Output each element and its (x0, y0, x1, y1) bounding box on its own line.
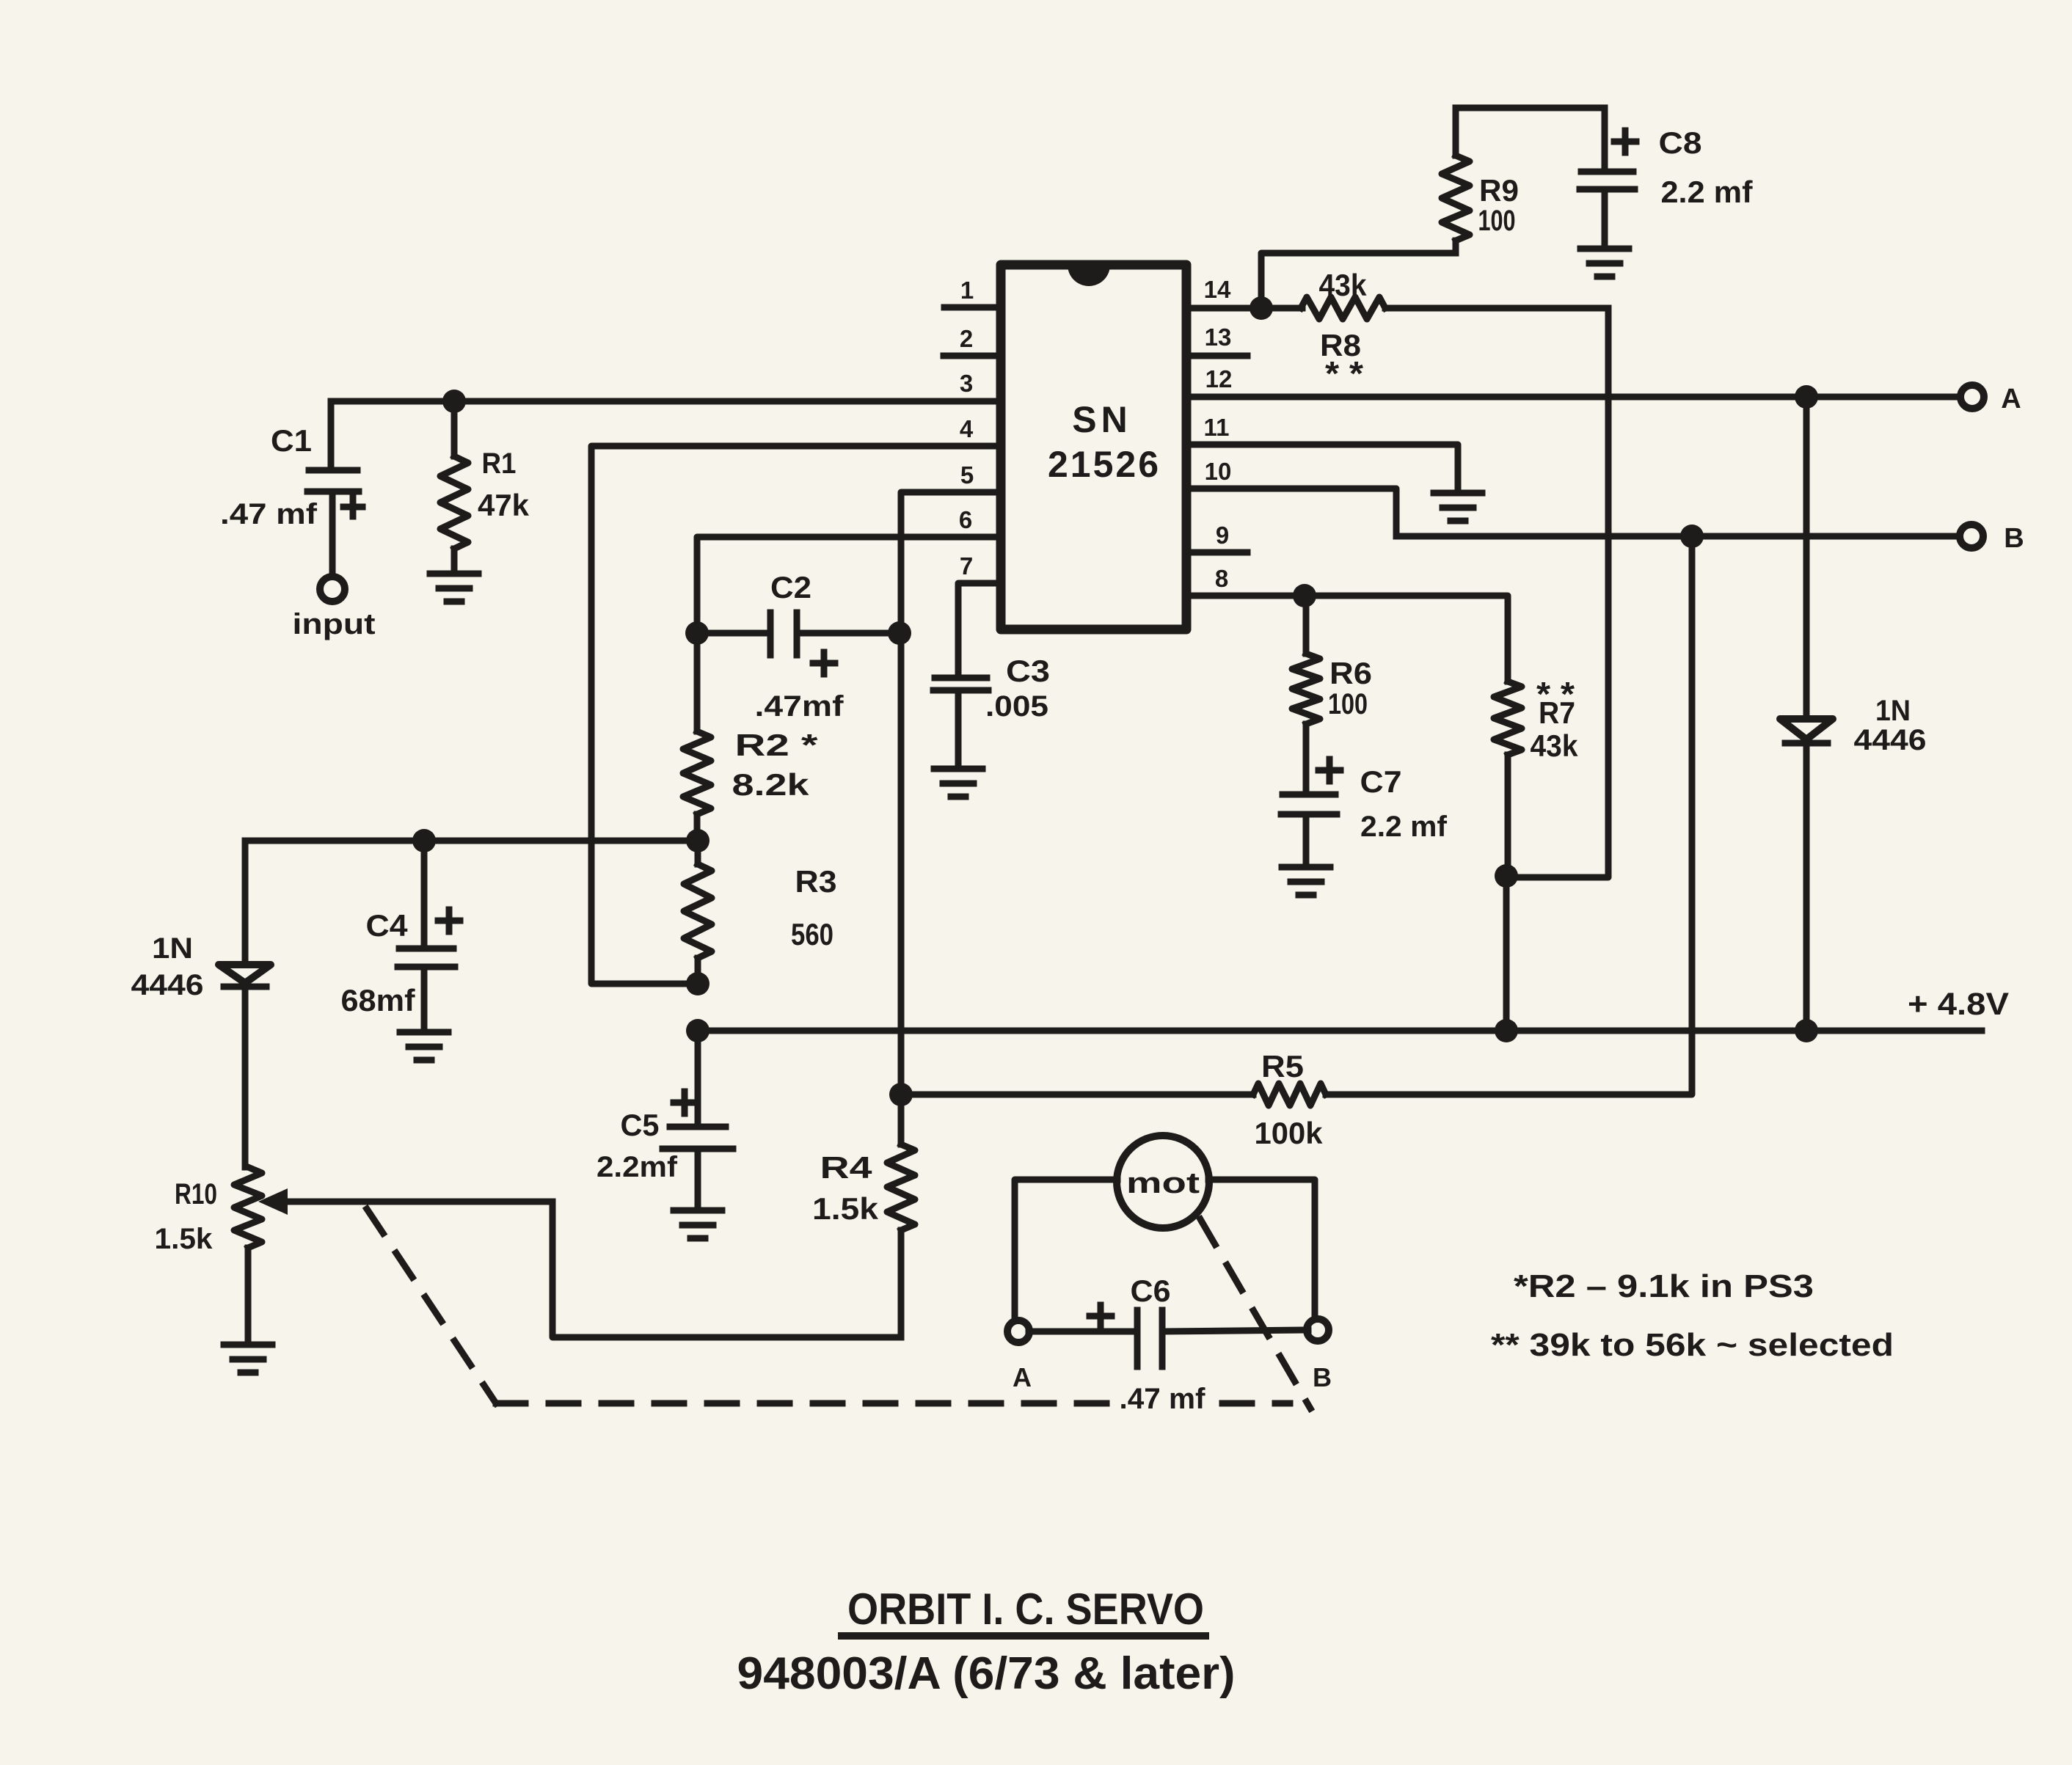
wire R8 right to R7 bottom (1506, 308, 1608, 877)
title ORBIT I.C. SERVO (842, 1585, 1205, 1636)
svg-text:100k: 100k (1255, 1116, 1324, 1150)
terminal B (1960, 525, 1983, 548)
C1 label (271, 423, 312, 458)
ground (pin 11) (1434, 493, 1482, 521)
C6 label (1131, 1273, 1171, 1308)
capacitor C3 (933, 678, 988, 767)
svg-text:C6: C6 (1131, 1273, 1171, 1308)
R4 label (820, 1150, 873, 1185)
svg-text:1N: 1N (152, 932, 193, 965)
R3 label (795, 864, 837, 899)
motor loop wire right (1208, 1180, 1315, 1318)
resistor R6 (1292, 596, 1320, 792)
pin 1 (944, 277, 1001, 307)
C5 value 2.2mf (597, 1151, 678, 1183)
C5 label (621, 1108, 660, 1142)
junction R7 bottom (1495, 864, 1518, 888)
C2 label (770, 570, 811, 604)
pin 2 (944, 325, 1001, 356)
wire wiper to R4 bottom (552, 1202, 901, 1337)
svg-text:*R2 – 9.1k in PS3: *R2 – 9.1k in PS3 (1514, 1268, 1814, 1304)
junction A line / diode (1795, 385, 1818, 409)
note 39k to 56k (1491, 1327, 1894, 1363)
dashed linkage from R10 wiper (367, 1209, 496, 1403)
svg-text:R10: R10 (175, 1178, 217, 1210)
ground (R10) (224, 1345, 272, 1373)
svg-text:8.2k: 8.2k (732, 767, 810, 802)
svg-text:100: 100 (1328, 688, 1368, 720)
diode 1N4446 (right) (1780, 397, 1833, 1031)
resistor R9 (1442, 108, 1470, 253)
svg-text:mot: mot (1126, 1167, 1200, 1199)
pin 5 wire (901, 461, 1001, 1095)
svg-text:11: 11 (1204, 414, 1230, 441)
R7 note stars (1536, 675, 1575, 713)
input label (293, 608, 376, 640)
junction pin-14 / R9 branch (1250, 296, 1273, 320)
ground (C5) (674, 1210, 722, 1238)
op-amp IC U1 SN 21526 body (1001, 265, 1186, 629)
svg-text:2.2 mf: 2.2 mf (1661, 175, 1754, 209)
svg-text:21526: 21526 (1048, 444, 1161, 485)
R1 label (482, 447, 517, 480)
svg-text:12: 12 (1205, 365, 1233, 392)
svg-text:560: 560 (791, 917, 833, 951)
svg-text:* *: * * (1325, 354, 1363, 392)
svg-text:C8: C8 (1659, 125, 1702, 160)
wire R9 bottom link (1261, 253, 1456, 308)
C4 label (366, 908, 409, 943)
svg-text:3: 3 (960, 370, 973, 397)
wire node to C4 and diode (y1146) (245, 838, 698, 844)
junction rail / R2R3 branch (686, 1019, 709, 1042)
svg-text:R1: R1 (482, 447, 517, 480)
ground (R1) (430, 574, 478, 602)
junction B line / R5 branch (1680, 525, 1704, 548)
pin 12 number (1205, 365, 1233, 392)
terminal B (motor) (1307, 1319, 1329, 1341)
C4 value 68mf (341, 983, 416, 1017)
svg-text:1: 1 (960, 277, 974, 304)
C7 label (1360, 764, 1402, 799)
pin 6 wire (697, 506, 1001, 633)
svg-text:10: 10 (1205, 458, 1232, 485)
svg-text:R7: R7 (1539, 695, 1575, 730)
R8 note stars (1325, 354, 1363, 392)
wire R9 top to C8 (1456, 105, 1605, 112)
svg-text:4446: 4446 (131, 969, 204, 1001)
terminal A label (2001, 384, 2021, 414)
svg-text:.47 mf: .47 mf (220, 498, 318, 530)
dashed linkage horizontal (496, 1400, 1290, 1407)
wire output A line (pin 12) (1186, 394, 1960, 401)
R10 label (175, 1178, 217, 1210)
capacitor C4 (398, 841, 460, 1031)
svg-text:948003/A (6/73 & later): 948003/A (6/73 & later) (737, 1648, 1236, 1699)
junction C2 right (888, 621, 911, 645)
R8 value 43k (1319, 268, 1368, 302)
R2 label (735, 728, 819, 762)
svg-text:** 39k to 56k ~ selected: ** 39k to 56k ~ selected (1491, 1327, 1894, 1363)
C8 label (1659, 125, 1702, 160)
svg-text:68mf: 68mf (341, 983, 416, 1017)
svg-text:ORBIT I. C. SERVO: ORBIT I. C. SERVO (847, 1585, 1204, 1634)
R9 value 100 (1478, 205, 1516, 237)
R6 label (1329, 656, 1372, 690)
svg-text:100: 100 (1478, 205, 1516, 237)
junction R3 bottom / pin 4 (686, 972, 709, 995)
svg-text:A: A (1013, 1362, 1032, 1392)
svg-text:R3: R3 (795, 864, 837, 899)
terminal A motor label (1013, 1362, 1032, 1392)
svg-text:+ 4.8V: + 4.8V (1908, 987, 2009, 1022)
C2 value .47mf (755, 690, 845, 723)
R7 value 43k (1531, 728, 1579, 763)
C1 value .47 mf (220, 498, 318, 530)
svg-text:R4: R4 (820, 1150, 873, 1185)
+4.8V power rail (698, 1028, 1982, 1034)
svg-text:input: input (293, 608, 376, 640)
pin 10 wire (1186, 458, 1396, 536)
terminal A (1960, 385, 1984, 409)
svg-text:5: 5 (960, 461, 974, 489)
right diode label 4446 (1854, 724, 1927, 756)
pin 4 wire (591, 415, 1001, 984)
resistor R5 and wire to B branch (901, 536, 1692, 1106)
svg-text:C2: C2 (770, 570, 811, 604)
resistor R7 (1494, 681, 1522, 876)
title 948003/A (6/73 &amp; later) (737, 1648, 1236, 1699)
capacitor C8 (1580, 108, 1636, 247)
pin 3 number (960, 370, 973, 397)
left diode label 4446 (131, 969, 204, 1001)
svg-text:1.5k: 1.5k (155, 1223, 214, 1255)
svg-text:14: 14 (1204, 276, 1231, 303)
diode 1N4446 (left) (219, 965, 271, 1167)
svg-text:1N: 1N (1875, 695, 1911, 727)
resistor R2 (683, 633, 711, 841)
ground (C4) (400, 1032, 448, 1060)
wire diode branch top (242, 841, 249, 962)
svg-text:8: 8 (1215, 565, 1228, 592)
wire R7 bottom to rail (1503, 876, 1510, 1031)
svg-text:9: 9 (1216, 522, 1229, 549)
svg-text:C4: C4 (366, 908, 409, 943)
svg-text:C1: C1 (271, 423, 312, 458)
pin 11 wire (1186, 414, 1458, 492)
terminal B motor label (1313, 1362, 1332, 1392)
C8 value 2.2 mf (1661, 175, 1754, 209)
R7 label (1539, 695, 1575, 730)
motor loop wire left (1015, 1180, 1117, 1319)
svg-text:4446: 4446 (1854, 724, 1927, 756)
junction C4 tap (412, 829, 436, 852)
input terminal (320, 577, 345, 602)
ground (C3) (934, 769, 982, 797)
pin 9 stub (1186, 522, 1247, 552)
R3 value 560 (791, 917, 833, 951)
junction C2 left (685, 621, 709, 645)
terminal B label (2004, 523, 2024, 554)
svg-text:R6: R6 (1329, 656, 1372, 690)
svg-text:2.2 mf: 2.2 mf (1360, 811, 1448, 843)
junction R5 / pin-5 branch (889, 1083, 913, 1106)
svg-text:43k: 43k (1531, 728, 1579, 763)
C3 value .005 (985, 690, 1048, 723)
svg-text:13: 13 (1205, 324, 1232, 351)
svg-text:.47mf: .47mf (755, 690, 845, 723)
svg-text:R9: R9 (1479, 173, 1519, 208)
R6 value 100 (1328, 688, 1368, 720)
ground (C7) (1282, 867, 1330, 895)
svg-text:B: B (1313, 1362, 1332, 1392)
svg-text:43k: 43k (1319, 268, 1368, 302)
junction pin-8 / R6 (1293, 584, 1316, 607)
pin 14 wire (1186, 276, 1608, 308)
R2 value 8.2k (732, 767, 810, 802)
junction node C1/R1 on pin-3 wire (442, 390, 466, 413)
C7 value 2.2mf (1360, 811, 1448, 843)
svg-text:A: A (2001, 384, 2021, 414)
pin 7 wire (958, 552, 1001, 675)
capacitor C2 (697, 613, 900, 674)
junction R2/R3 node (686, 829, 709, 852)
dashed linkage from motor (1200, 1219, 1310, 1408)
svg-text:C5: C5 (621, 1108, 660, 1142)
wire pin-3 net (C1/R1 to IC pin 3) (331, 398, 1001, 405)
R4 value 1.5k (812, 1191, 879, 1226)
junction diode / +4.8V rail (1795, 1019, 1818, 1042)
junction R7 / +4.8V rail (1495, 1019, 1518, 1042)
svg-text:2: 2 (960, 325, 973, 352)
resistor R8 (1301, 297, 1385, 319)
R5 value 100k (1255, 1116, 1324, 1150)
potentiometer R10 (234, 1167, 552, 1343)
svg-text:6: 6 (959, 506, 972, 533)
resistor R1 (440, 401, 468, 572)
capacitor C6 (1029, 1305, 1308, 1367)
motor M (1117, 1136, 1209, 1228)
svg-text:47k: 47k (478, 488, 530, 522)
pin 13 stub (1186, 324, 1247, 356)
svg-text:1.5k: 1.5k (812, 1191, 879, 1226)
C3 label (1006, 654, 1050, 688)
capacitor C7 (1281, 759, 1340, 866)
svg-text:R5: R5 (1261, 1049, 1304, 1084)
wire output B line (pin 10) (1396, 533, 1960, 540)
left diode label 1N (152, 932, 193, 965)
svg-text:C7: C7 (1360, 764, 1402, 799)
+4.8V label (1908, 987, 2009, 1022)
svg-text:SN: SN (1072, 399, 1131, 440)
R9 label (1479, 173, 1519, 208)
ground (C8) (1580, 249, 1629, 277)
svg-text:C3: C3 (1006, 654, 1050, 688)
svg-text:.005: .005 (985, 690, 1048, 723)
capacitor C5 (663, 1031, 733, 1209)
IC U1 name label (1048, 399, 1161, 485)
terminal A (motor) (1007, 1320, 1029, 1342)
R5 label (1261, 1049, 1304, 1084)
pin 8 wire (1186, 565, 1508, 681)
R1 value 47k (478, 488, 530, 522)
svg-text:7: 7 (960, 552, 973, 580)
capacitor C1 (307, 401, 362, 577)
resistor R3 (684, 841, 712, 984)
svg-text:B: B (2004, 523, 2024, 554)
svg-text:2.2mf: 2.2mf (597, 1151, 678, 1183)
svg-text:4: 4 (960, 415, 974, 442)
R8 label (1320, 328, 1361, 362)
C6 value .47 mf (1120, 1383, 1206, 1415)
R10 value 1.5k (155, 1223, 214, 1255)
note R2 PS3 (1514, 1268, 1814, 1304)
right diode label 1N (1875, 695, 1911, 727)
resistor R4 (887, 1095, 915, 1337)
svg-text:.47 mf: .47 mf (1120, 1383, 1206, 1415)
svg-text:R2 *: R2 * (735, 728, 819, 762)
